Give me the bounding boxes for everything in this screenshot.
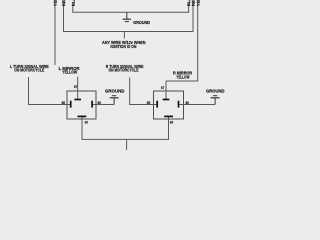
wire pin30 right drop (168, 116, 170, 139)
wire pin85 right (130, 104, 158, 106)
terminal bar 86 K2 (178, 101, 180, 108)
svg-text:ON MOTORCYCLE: ON MOTORCYCLE (109, 68, 139, 73)
ground symbol right (211, 96, 220, 105)
svg-text:YELLOW: YELLOW (53, 0, 58, 6)
wire W3 ground left riser (72, 5, 74, 12)
wire WC yellow feed right (197, 5, 199, 81)
wire H2 12v horizontal (63, 31, 194, 33)
svg-text:85: 85 (147, 100, 151, 105)
wire pin85 left (29, 104, 71, 106)
terminal bar 85 K1 (70, 101, 72, 108)
terminal bar 86 K1 (91, 101, 93, 108)
svg-text:87: 87 (74, 84, 78, 89)
svg-text:85: 85 (62, 100, 66, 105)
wire W2 12v left (63, 5, 65, 31)
wire pin87 right drop (165, 81, 167, 100)
svg-text:30: 30 (85, 119, 89, 124)
svg-text:IGNITION IS ON: IGNITION IS ON (110, 44, 136, 49)
wire pin86 left to ground (92, 104, 114, 106)
svg-text:YELLOW: YELLOW (195, 0, 200, 6)
ground symbol middle (110, 96, 119, 105)
wire WB 12v right riser (192, 5, 194, 31)
terminal bar 87 K2 (163, 99, 170, 101)
svg-text:YELLOW: YELLOW (176, 74, 190, 79)
svg-text:86: 86 (186, 100, 190, 105)
svg-text:86: 86 (98, 100, 102, 105)
terminal bar 30 K2 (164, 115, 173, 117)
ground symbol top (123, 12, 131, 21)
wire bottom rail (82, 138, 170, 140)
wire WA ground right riser (188, 5, 190, 12)
relay K1 body (67, 91, 96, 119)
wire H1 ground horizontal (72, 11, 189, 13)
terminal bar 85 K2 (156, 101, 158, 108)
wire HC to R mirror pin 87 (166, 80, 198, 82)
terminal bar 30 K1 (78, 115, 87, 117)
wire pin30 left drop (81, 116, 83, 139)
svg-text:GROUND: GROUND (133, 20, 150, 25)
wire R turn stub (129, 78, 131, 106)
svg-text:BLACK: BLACK (70, 0, 75, 6)
relay K2 body (154, 91, 184, 119)
svg-text:RED: RED (61, 0, 66, 6)
wire stub to ANY WIRE label (123, 32, 125, 39)
wire pin86 right to ground (179, 104, 216, 106)
svg-text:GROUND: GROUND (206, 89, 225, 94)
wire W1 yellow feed left (54, 5, 56, 65)
wire pin87 left drop (77, 77, 79, 100)
terminal bar 87 K1 (74, 99, 81, 101)
svg-text:87: 87 (161, 85, 165, 90)
svg-text:GROUND: GROUND (105, 89, 124, 94)
svg-text:30: 30 (170, 119, 174, 124)
svg-text:ON MOTORCYCLE: ON MOTORCYCLE (14, 68, 44, 73)
wire bottom drop (126, 139, 128, 150)
svg-text:YELLOW: YELLOW (62, 70, 78, 75)
wire L turn stub (28, 77, 30, 105)
